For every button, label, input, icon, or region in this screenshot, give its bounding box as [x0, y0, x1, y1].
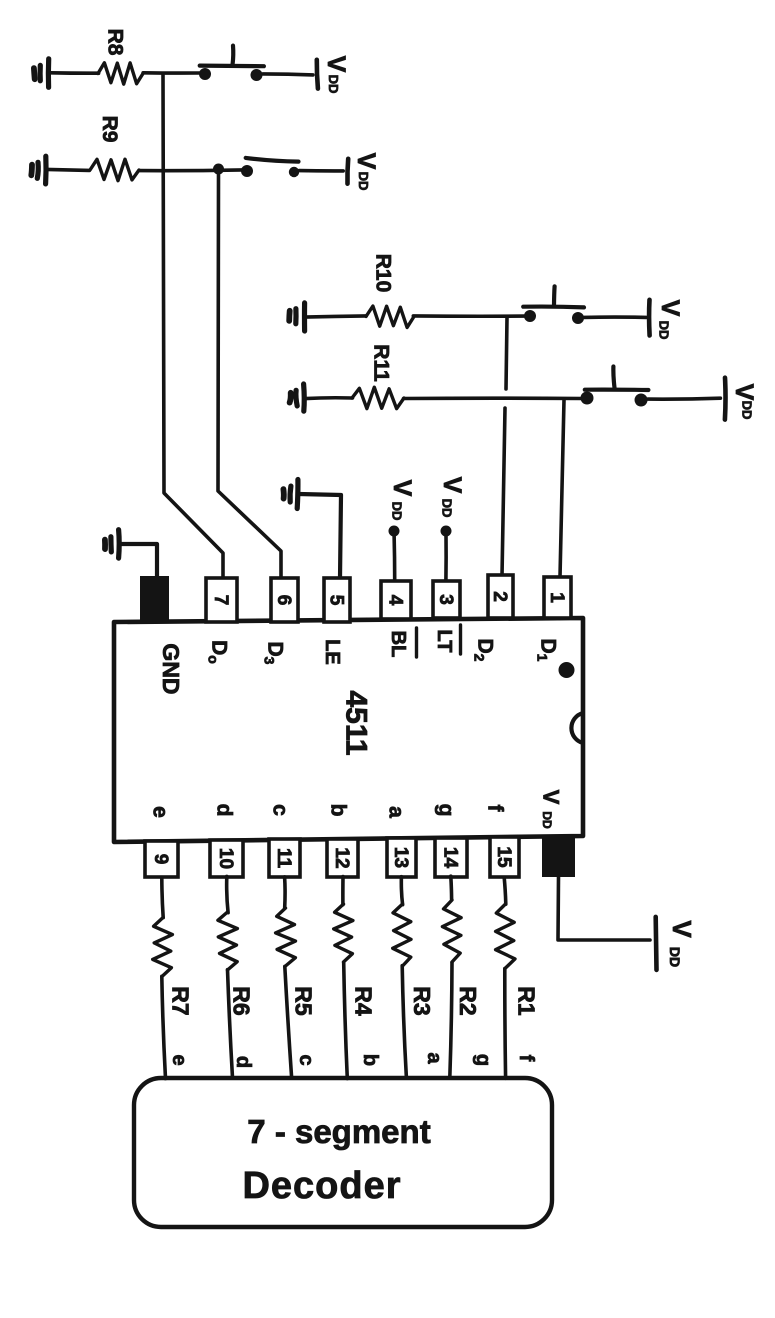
svg-text:e: e [149, 806, 172, 818]
resistor R7 [153, 918, 173, 976]
pin 4 stub [381, 581, 411, 619]
svg-text:DD: DD [356, 172, 371, 191]
wire [648, 396, 721, 401]
label R1 [514, 986, 540, 1016]
wire [51, 71, 99, 75]
pin 14 stub [435, 838, 467, 877]
wire [47, 169, 90, 170]
wire [305, 396, 352, 400]
pin name g [435, 804, 458, 817]
pushbutton S4 [581, 367, 649, 407]
pin 1 stub [544, 577, 571, 618]
svg-text:GND: GND [158, 643, 184, 694]
op-amp U1 4511 body [114, 618, 583, 842]
power VDD (S2) [347, 153, 379, 191]
label R2 [455, 986, 481, 1015]
svg-text:c: c [269, 804, 292, 816]
wire [263, 74, 313, 75]
wire (pin to R2) [449, 876, 453, 899]
wire D3 net (R9 to pin 6) [218, 172, 281, 578]
wire (R3 to decoder) [402, 966, 406, 1078]
pin 16 VDD stub (filled) [542, 837, 575, 877]
svg-text:DD: DD [740, 401, 755, 420]
node b [359, 1054, 381, 1066]
pin name D2 [472, 639, 497, 662]
label R5 [290, 986, 316, 1016]
ground (R9 net) [31, 156, 46, 184]
node c [295, 1054, 317, 1065]
svg-text:g: g [435, 804, 458, 817]
wire D0 net (R8 to pin 7) [163, 75, 223, 578]
svg-text:LE: LE [321, 639, 343, 665]
pin name BL [387, 628, 417, 657]
wire [392, 534, 396, 581]
pin name f [484, 805, 507, 813]
pin 3 stub [433, 581, 460, 618]
svg-text:13: 13 [390, 847, 411, 868]
ground (pin 8) [105, 530, 119, 558]
U1 pin-1 dot [559, 662, 575, 678]
svg-text:LT: LT [433, 630, 455, 653]
wire [299, 494, 341, 578]
power VDD (S3) [649, 300, 684, 340]
resistor R3 [393, 904, 411, 966]
svg-text:2: 2 [489, 591, 510, 602]
svg-text:DD: DD [439, 499, 454, 518]
wire (pin to R3) [401, 877, 402, 905]
label 7-segment [247, 1113, 430, 1150]
pin 11 stub [269, 839, 300, 877]
resistor R5 [276, 908, 296, 966]
svg-text:V: V [667, 920, 697, 938]
label Decoder [242, 1165, 401, 1207]
wire (R7 to decoder) [162, 976, 166, 1078]
label R8 [104, 29, 127, 56]
svg-text:3: 3 [435, 594, 456, 605]
power VDD (pin 16) [656, 917, 697, 970]
power VDD (S1) [317, 56, 350, 94]
svg-text:c: c [295, 1054, 317, 1065]
wire (pin to R7) [162, 878, 163, 918]
svg-text:DD: DD [657, 321, 672, 340]
svg-text:V: V [656, 300, 684, 317]
svg-text:R10: R10 [372, 254, 395, 293]
svg-text:b: b [327, 804, 350, 817]
resistor R11 [352, 387, 404, 408]
label R9 [98, 116, 121, 143]
resistor R10 [366, 306, 414, 328]
svg-text:g: g [472, 1054, 494, 1066]
resistor R9 [90, 159, 139, 181]
svg-text:DD: DD [540, 811, 554, 829]
svg-text:7 - segment: 7 - segment [247, 1113, 430, 1150]
pin 10 stub [210, 840, 243, 877]
ground (LE pin 5) [283, 480, 298, 509]
pin name c [269, 804, 292, 816]
label R11 [370, 344, 393, 382]
svg-text:R9: R9 [98, 116, 121, 143]
wire (R5 to decoder) [285, 966, 292, 1077]
wire [143, 71, 199, 75]
svg-text:BL: BL [387, 631, 409, 658]
node e [168, 1054, 190, 1065]
label R3 [409, 986, 435, 1015]
pin name D3 [262, 642, 287, 665]
wire (pin to R5) [283, 877, 287, 908]
resistor R6 [218, 912, 238, 970]
svg-text:R1: R1 [514, 986, 540, 1016]
svg-text:10: 10 [215, 848, 236, 869]
label R7 [167, 986, 193, 1015]
pin 5 stub [324, 578, 350, 622]
pin name GND [158, 643, 184, 694]
wire [404, 396, 583, 400]
pin 13 stub [387, 838, 416, 877]
pin 6 stub [271, 578, 298, 622]
7-segment decoder box [134, 1078, 552, 1227]
ground (R10 net) [289, 303, 304, 331]
pushbutton S3 [523, 286, 584, 324]
svg-text:R11: R11 [370, 344, 393, 382]
svg-text:7: 7 [210, 595, 231, 606]
svg-text:f: f [484, 805, 507, 813]
svg-text:a: a [423, 1052, 445, 1064]
node a [423, 1052, 445, 1064]
wire [304, 316, 366, 317]
pin name b [327, 804, 350, 817]
wire [299, 169, 343, 173]
wire (R4 to decoder) [344, 963, 348, 1079]
svg-text:e: e [168, 1054, 190, 1065]
svg-text:d: d [213, 804, 236, 817]
svg-text:R3: R3 [409, 986, 435, 1015]
node f [515, 1055, 537, 1062]
svg-text:f: f [515, 1055, 537, 1062]
wire (R2 to decoder) [450, 963, 452, 1079]
svg-text:V: V [352, 153, 380, 170]
pin name LE [321, 639, 343, 665]
svg-text:5: 5 [325, 595, 346, 606]
svg-text:9: 9 [150, 854, 171, 865]
svg-text:11: 11 [273, 848, 294, 869]
svg-text:V: V [388, 480, 416, 497]
svg-text:V: V [730, 384, 758, 401]
label 4511 [340, 690, 373, 755]
svg-text:Decoder: Decoder [242, 1165, 401, 1207]
wire (pin to R4) [341, 877, 345, 905]
wire [444, 534, 448, 581]
svg-text:R8: R8 [104, 29, 127, 56]
wire D2 net (R10 to pin 2) [502, 318, 507, 576]
pin name VDD [538, 790, 563, 829]
resistor R4 [334, 904, 353, 962]
wire [584, 315, 647, 319]
pin 7 stub [206, 578, 237, 622]
power VDD (LT) [438, 477, 466, 537]
pin name D0 [206, 640, 231, 664]
pin 12 stub [327, 839, 358, 877]
resistor R8 [98, 63, 143, 84]
svg-text:DD: DD [389, 502, 404, 521]
ground (R11 net) [290, 384, 305, 411]
wire D1 net (R11 to pin 1) [560, 400, 564, 577]
svg-text:1: 1 [546, 592, 567, 603]
svg-text:V: V [322, 56, 350, 73]
wire [413, 314, 524, 318]
wire (R6 to decoder) [228, 970, 233, 1078]
pushbutton S1 [199, 46, 264, 81]
label R10 [372, 254, 395, 293]
junction (D3 tap) [213, 164, 224, 175]
svg-text:d: d [232, 1056, 254, 1068]
svg-text:12: 12 [331, 847, 352, 868]
svg-text:R2: R2 [455, 986, 481, 1015]
power VDD (BL) [388, 480, 416, 537]
ground (R8 net) [34, 59, 49, 88]
pin 8 GND stub (filled) [140, 576, 169, 622]
pin 2 stub [488, 575, 513, 618]
pin 9 stub [145, 841, 178, 877]
svg-text:14: 14 [439, 847, 460, 869]
wire (R1 to decoder) [503, 969, 507, 1079]
resistor R2 [442, 900, 461, 962]
svg-text:V: V [538, 790, 563, 805]
wire [140, 168, 243, 172]
wire (pin to R6) [227, 876, 228, 912]
svg-text:R7: R7 [167, 986, 193, 1015]
svg-text:15: 15 [493, 846, 514, 868]
power VDD (S4) [725, 378, 758, 420]
svg-text:4: 4 [384, 595, 405, 606]
pin name d [213, 804, 236, 817]
pin 15 stub [490, 837, 519, 877]
wire (pin 16 VDD) [558, 877, 650, 940]
pin name a [385, 806, 408, 818]
pushbutton S2 [241, 158, 299, 177]
resistor R1 [496, 904, 515, 968]
svg-text:V: V [438, 477, 466, 494]
svg-text:6: 6 [273, 595, 294, 606]
U1 notch [571, 713, 583, 743]
node d [232, 1056, 254, 1068]
svg-text:DD: DD [667, 947, 683, 967]
label R6 [228, 986, 254, 1015]
svg-text:b: b [359, 1054, 381, 1066]
svg-text:DD: DD [326, 75, 341, 94]
svg-text:a: a [385, 806, 408, 818]
svg-text:R5: R5 [290, 986, 316, 1016]
svg-text:R4: R4 [350, 986, 376, 1016]
pin name LT [433, 625, 461, 654]
wire (pin to R1) [504, 878, 506, 905]
svg-text:R6: R6 [228, 986, 254, 1015]
pin name e [149, 806, 172, 818]
node g [472, 1054, 494, 1066]
svg-text:4511: 4511 [340, 690, 373, 755]
pin name D1 [535, 639, 560, 662]
label R4 [350, 986, 376, 1016]
wire [120, 544, 157, 577]
